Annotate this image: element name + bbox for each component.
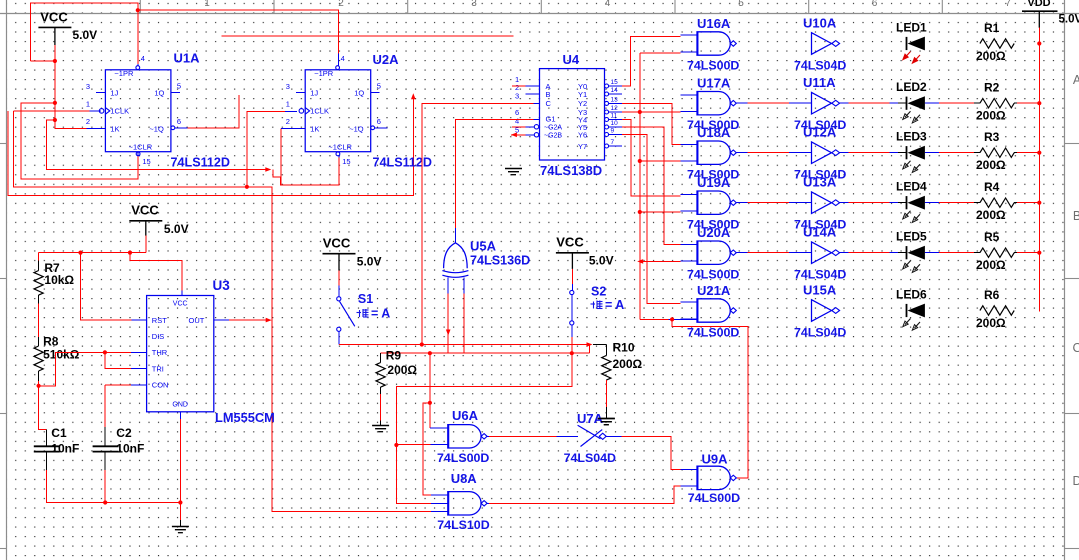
svg-text:R5: R5 — [984, 230, 1000, 244]
svg-text:12: 12 — [611, 105, 619, 112]
svg-text:6: 6 — [177, 117, 181, 126]
svg-text:74LS04D: 74LS04D — [794, 268, 846, 282]
svg-text:VCC: VCC — [131, 203, 159, 218]
power VCC3 5.0V for S1 — [323, 253, 356, 255]
wire LED to resistor — [925, 102, 939, 104]
svg-text:U3: U3 — [213, 278, 231, 293]
svg-text:74LS112D: 74LS112D — [171, 156, 231, 170]
svg-text:~1CLR: ~1CLR — [328, 142, 352, 151]
wire U5A input right — [463, 278, 465, 294]
svg-text:5.0V: 5.0V — [164, 222, 189, 236]
svg-text:74LS04D: 74LS04D — [794, 326, 846, 340]
wire inverter output to LED — [840, 152, 849, 154]
pin Y2 bubble/stub — [605, 101, 609, 105]
svg-text:~1PR: ~1PR — [314, 69, 334, 78]
node S2 bus — [570, 351, 574, 355]
svg-text:5.0V: 5.0V — [589, 254, 614, 268]
wire resistor to VDD bus — [1014, 102, 1017, 104]
wire U4 C input net from below — [422, 103, 534, 344]
svg-text:B: B — [1073, 209, 1079, 223]
svg-text:14: 14 — [611, 87, 619, 94]
switch S2 key=A closed — [571, 269, 573, 284]
svg-text:200Ω: 200Ω — [976, 208, 1006, 222]
wire RST pin — [81, 253, 132, 321]
svg-text:200Ω: 200Ω — [976, 49, 1006, 63]
svg-text:200Ω: 200Ω — [976, 109, 1006, 123]
svg-text:1Q: 1Q — [354, 88, 364, 97]
svg-text:74LS112D: 74LS112D — [373, 156, 433, 170]
wire CON to C2 — [131, 384, 147, 386]
node U6A lower branch — [394, 443, 398, 447]
node ground junction — [178, 500, 182, 504]
wire jog arrow — [265, 167, 271, 172]
svg-text:510kΩ: 510kΩ — [43, 348, 80, 362]
svg-text:10kΩ: 10kΩ — [44, 273, 74, 287]
wire Y3 chain to U16A lower — [640, 52, 681, 54]
wire U4 A input dangling stub — [512, 85, 526, 87]
node Y3 to U19A lower — [638, 210, 642, 214]
svg-text:U13A: U13A — [803, 175, 837, 190]
wire U4 G1 from U5A output — [455, 120, 533, 229]
node U6A/U8A branch — [428, 401, 432, 405]
switch S1 key=A — [338, 271, 340, 286]
LED LED5 — [906, 246, 908, 259]
wire Y3 chain to U21A lower — [640, 318, 669, 320]
node VDD bus junction — [1037, 151, 1041, 155]
ground symbol below R10 — [598, 418, 615, 420]
inverter U13A 74LS04D — [812, 192, 832, 214]
NAND gate U18A 74LS00D — [697, 141, 730, 164]
wire Y0 to U16A — [622, 37, 681, 87]
wire LED to resistor — [925, 152, 939, 154]
wire resistor to VDD bus — [1014, 252, 1017, 254]
node A1 — [53, 101, 57, 105]
wire U1A ~1PR pin 4 — [137, 10, 139, 64]
svg-text:1CLK: 1CLK — [110, 107, 129, 116]
svg-text:DIS: DIS — [152, 332, 165, 341]
decoder U4 74LS138D — [540, 69, 605, 160]
svg-text:U14A: U14A — [803, 225, 837, 240]
wire Y5 to U20A upper — [622, 127, 681, 244]
wire U3 OUT to clock net arrow — [214, 319, 229, 321]
svg-text:VCC: VCC — [556, 235, 584, 250]
wire U2A CLK blue segment — [285, 110, 297, 112]
inverter U15A 74LS04D — [812, 300, 832, 322]
svg-text:13: 13 — [611, 97, 619, 104]
svg-text:LED6: LED6 — [896, 288, 927, 302]
pin Y7 bubble/stub — [605, 144, 609, 148]
svg-text:200Ω: 200Ω — [976, 316, 1006, 330]
wire U6A output to U7A — [487, 435, 489, 437]
svg-text:U20A: U20A — [697, 225, 731, 240]
svg-text:3: 3 — [286, 82, 290, 91]
node VCC2 to RST — [78, 251, 82, 255]
svg-text:4: 4 — [341, 54, 345, 63]
svg-text:200Ω: 200Ω — [976, 258, 1006, 272]
node clock bus to U2A 1CLK — [245, 185, 249, 189]
wire dangling horizontal segment — [222, 35, 514, 37]
wire Y4 to U19A upper — [622, 120, 681, 196]
wire feedback bus lower — [8, 96, 413, 196]
NAND gate U8A 74LS10D 3-input — [448, 492, 481, 515]
wire U2A K blue segment — [281, 128, 305, 130]
svg-text:U8A: U8A — [451, 471, 478, 486]
svg-text:74LS00D: 74LS00D — [687, 59, 739, 73]
pin Y6 bubble/stub — [605, 133, 609, 137]
pin Y1 bubble/stub — [605, 92, 609, 96]
svg-text:U6A: U6A — [452, 408, 479, 423]
wire bus arrow into R10 — [587, 342, 593, 347]
svg-text:200Ω: 200Ω — [976, 158, 1006, 172]
svg-text:74LS04D: 74LS04D — [564, 451, 616, 465]
wire LED to resistor — [925, 202, 939, 204]
wire U4 ~G2B arrow stub — [511, 133, 517, 138]
svg-text:15: 15 — [611, 79, 619, 86]
svg-text:~G2A: ~G2A — [544, 125, 562, 132]
svg-text:1K: 1K — [310, 125, 319, 134]
node R8/C1/THR — [37, 384, 41, 388]
wire Y3 chain vertical — [622, 111, 681, 113]
svg-text:U10A: U10A — [803, 16, 837, 31]
svg-text:U16A: U16A — [697, 16, 731, 31]
node VDD bus junction — [1037, 41, 1041, 45]
svg-text:15: 15 — [142, 157, 150, 166]
capacitor C2 10nF — [104, 427, 106, 446]
inverter U10A 74LS04D — [812, 33, 832, 55]
wire NAND outputs to inverters rows 2-5 — [736, 102, 747, 104]
svg-text:LED4: LED4 — [896, 180, 927, 194]
svg-text:THR: THR — [152, 348, 168, 357]
svg-text:200Ω: 200Ω — [387, 363, 417, 377]
svg-text:R9: R9 — [386, 349, 402, 363]
svg-text:S1: S1 — [358, 292, 373, 306]
inverter U14A 74LS04D — [812, 242, 832, 264]
svg-text:U12A: U12A — [803, 125, 837, 140]
svg-text:B: B — [546, 90, 551, 99]
wire VDD bus vertical — [1038, 28, 1040, 312]
svg-text:10nF: 10nF — [116, 442, 144, 456]
wire S2 to key bus — [571, 337, 573, 353]
wire LED to resistor — [925, 252, 939, 254]
inverter U11A 74LS04D — [812, 92, 832, 114]
node VDD bus junction — [1037, 251, 1041, 255]
svg-text:VCC: VCC — [40, 10, 68, 25]
svg-text:TRI: TRI — [152, 364, 164, 373]
wire Y6 to U21A upper — [622, 135, 681, 304]
svg-text:7: 7 — [611, 139, 615, 146]
svg-text:3: 3 — [515, 92, 519, 101]
svg-text:~1CLR: ~1CLR — [129, 142, 153, 151]
pin Y3 bubble/stub — [605, 110, 609, 114]
capacitor C1 10nF — [39, 386, 47, 430]
power VCC2 5.0V for U3 — [129, 220, 162, 222]
svg-text:74LS00D: 74LS00D — [688, 491, 740, 505]
wire S1 bottom bus — [339, 344, 590, 346]
svg-text:A: A — [1073, 73, 1079, 87]
svg-text:5: 5 — [738, 0, 744, 9]
wire Y2 to U18A — [622, 103, 681, 144]
svg-text:LED5: LED5 — [896, 230, 927, 244]
wire arrow on U5A input — [446, 330, 451, 336]
pin ~G2B bubble — [534, 133, 538, 137]
wire to U8A input 2 — [396, 445, 431, 503]
svg-text:R2: R2 — [984, 81, 1000, 95]
inverter U12A 74LS04D — [812, 142, 832, 164]
svg-text:5: 5 — [177, 82, 181, 91]
svg-text:10nF: 10nF — [51, 442, 79, 456]
wire VCC1 down to U1A inputs — [54, 61, 56, 103]
node C-net on S1 bus — [420, 342, 424, 346]
svg-text:4: 4 — [515, 117, 519, 126]
svg-text:R8: R8 — [43, 335, 59, 349]
svg-text:4: 4 — [141, 54, 145, 63]
svg-text:C: C — [546, 99, 552, 108]
node Y3 to U18A lower — [638, 159, 642, 163]
node THR-TRI tie — [103, 350, 107, 354]
node C2 ground — [103, 500, 107, 504]
wire U2A 1K feedback — [280, 129, 282, 186]
svg-text:11: 11 — [611, 113, 618, 120]
svg-text:R6: R6 — [984, 288, 1000, 302]
svg-text:U18A: U18A — [697, 125, 731, 140]
NAND gate U17A 74LS00D — [697, 92, 730, 115]
svg-text:1: 1 — [86, 100, 90, 109]
LED LED2 — [906, 97, 908, 110]
wire inverter output to LED — [840, 202, 849, 204]
resistor R6 200R — [980, 306, 1014, 315]
svg-text:4: 4 — [605, 0, 611, 9]
svg-text:= A: = A — [605, 298, 624, 312]
svg-text:S2: S2 — [591, 285, 606, 299]
label S2 key=A — [591, 301, 603, 309]
svg-text:74LS04D: 74LS04D — [794, 59, 846, 73]
NAND gate U16A 74LS00D — [697, 32, 730, 55]
svg-text:C1: C1 — [51, 426, 67, 440]
svg-text:GND: GND — [172, 402, 188, 409]
wire VCC2 rail — [145, 236, 147, 253]
svg-text:6: 6 — [377, 117, 381, 126]
svg-text:1J: 1J — [310, 88, 318, 97]
svg-text:U5A: U5A — [470, 239, 497, 254]
svg-text:R4: R4 — [984, 180, 1000, 194]
wire VCC1 loop to U1A/U2A preset rail — [54, 45, 56, 61]
svg-text:5.0V: 5.0V — [73, 28, 98, 42]
power VCC4 5.0V for S2 — [556, 252, 589, 254]
svg-text:LM555CM: LM555CM — [215, 410, 275, 425]
wire U9A output blue segment — [735, 477, 738, 479]
svg-text:1CLK: 1CLK — [310, 107, 329, 116]
wire U1A CLR blue segment — [137, 152, 139, 156]
NAND gate U6A 74LS00D — [448, 425, 481, 448]
svg-text:74LS138D: 74LS138D — [540, 163, 602, 178]
wire bus jumper — [588, 345, 590, 354]
svg-text:15: 15 — [342, 157, 350, 166]
wire arrow into U20A lower — [637, 259, 643, 264]
svg-text:U9A: U9A — [702, 452, 729, 467]
svg-text:74LS00D: 74LS00D — [437, 451, 489, 465]
wire feedback loop to U2A ~1CLR — [47, 120, 268, 170]
svg-text:Y6: Y6 — [578, 130, 587, 139]
pin Y5 bubble/stub — [605, 125, 609, 129]
svg-text:C2: C2 — [116, 426, 132, 440]
LED LED1 — [906, 37, 908, 50]
resistor R3 200R — [980, 148, 1014, 157]
svg-text:U4: U4 — [563, 52, 580, 67]
svg-text:U11A: U11A — [803, 75, 836, 90]
svg-text:U2A: U2A — [373, 52, 400, 67]
power VCC1 5.0V — [38, 26, 71, 28]
wire U3 GND pin to ground — [179, 412, 181, 419]
node VCC1 junction — [53, 59, 57, 63]
svg-text:U1A: U1A — [174, 51, 201, 66]
NAND gate U21A 74LS00D — [697, 299, 730, 322]
resistor R7 10k — [38, 253, 40, 261]
wire line C net — [396, 353, 571, 445]
ground symbol next to U7A — [598, 418, 615, 420]
svg-text:1: 1 — [286, 100, 290, 109]
LED LED4 — [906, 196, 908, 209]
node VDD bus junction — [1037, 101, 1041, 105]
svg-text:1J: 1J — [110, 88, 118, 97]
ground symbol below U3 — [172, 526, 189, 528]
power VDD 5.0V — [1022, 10, 1058, 12]
wire branch to U8A input 1 — [423, 403, 431, 495]
svg-text:VCC: VCC — [173, 301, 188, 308]
timer U3 LM555CM — [147, 296, 214, 412]
NAND gate U9A 74LS00D — [697, 466, 730, 489]
svg-text:Y7: Y7 — [578, 142, 587, 151]
inverter U7A 74LS04D collapsed glyph — [578, 425, 603, 446]
pin Y4 bubble/stub — [605, 118, 609, 122]
svg-text:G1: G1 — [546, 115, 556, 124]
svg-text:1: 1 — [204, 0, 210, 9]
pin ~G2A bubble — [534, 125, 538, 129]
wire feedback loop to U1A ~1CLR — [21, 103, 138, 179]
svg-text:= A: = A — [371, 307, 390, 321]
svg-text:6: 6 — [872, 0, 878, 9]
svg-text:2: 2 — [86, 117, 90, 126]
svg-text:10: 10 — [611, 120, 619, 127]
wire clock bus from U1A 1CLK — [13, 110, 89, 112]
wire U7A output to U9A upper — [606, 435, 621, 437]
svg-text:5: 5 — [377, 82, 381, 91]
NAND gate U20A 74LS00D — [697, 241, 730, 264]
svg-text:CON: CON — [152, 381, 169, 390]
svg-text:74LS00D: 74LS00D — [687, 268, 739, 282]
svg-text:VCC: VCC — [323, 236, 351, 251]
resistor R1 200R — [980, 39, 1014, 48]
node A2 — [53, 118, 57, 122]
resistor R4 200R — [980, 198, 1014, 207]
wire resistor to VDD bus — [1014, 152, 1017, 154]
resistor R8 510k — [38, 337, 40, 346]
svg-text:7: 7 — [1005, 0, 1011, 9]
XOR gate U5A 74LS136D — [444, 243, 468, 268]
wire U4 ~G2A input dangling stub — [512, 126, 526, 128]
svg-text:1Q: 1Q — [154, 88, 164, 97]
svg-text:C: C — [1072, 341, 1079, 355]
wire preset rail to U2A — [136, 8, 140, 12]
svg-text:U17A: U17A — [697, 76, 731, 91]
LED LED6 — [906, 304, 908, 317]
wire U5A output up to G1 — [454, 228, 456, 243]
svg-text:200Ω: 200Ω — [613, 357, 643, 371]
svg-text:LED3: LED3 — [896, 130, 927, 144]
wire R8 bottom junction — [38, 381, 40, 386]
resistor R5 200R — [980, 248, 1014, 257]
wire inverter output to LED — [840, 102, 849, 104]
wire loop to U9A output — [672, 319, 748, 478]
flip-flop U1A 74LS112D — [105, 70, 170, 152]
svg-text:D: D — [1072, 474, 1079, 488]
svg-text:5.0V: 5.0V — [357, 255, 382, 269]
wire U8A output to U9A lower — [487, 502, 489, 504]
wire S2 lower bus y353 — [381, 352, 590, 354]
svg-text:74LS136D: 74LS136D — [470, 254, 530, 268]
svg-text:~1Q: ~1Q — [149, 125, 164, 134]
wire dangling arrow up — [411, 93, 416, 99]
wire inverter output to LED — [840, 252, 849, 254]
svg-text:R10: R10 — [613, 341, 635, 355]
resistor R10 200R — [593, 344, 607, 346]
svg-text:2: 2 — [338, 0, 344, 9]
node U21A lower junction — [670, 317, 674, 321]
svg-text:~1PR: ~1PR — [114, 69, 134, 78]
svg-text:5.0V: 5.0V — [1059, 14, 1079, 26]
wire U2A ~1PR blue segment — [337, 54, 339, 66]
svg-text:R3: R3 — [984, 130, 1000, 144]
svg-text:~G2B: ~G2B — [544, 133, 562, 140]
svg-text:OUT: OUT — [189, 316, 205, 325]
svg-text:1K: 1K — [110, 125, 119, 134]
wire U5A input left — [447, 278, 449, 294]
node VCC2 to U3 VCC — [128, 251, 132, 255]
svg-text:2: 2 — [286, 117, 290, 126]
svg-text:3: 3 — [471, 0, 477, 9]
wire U8A input 3 blue segment — [431, 511, 447, 513]
wire to U3 VCC pin — [130, 253, 182, 291]
NAND gate U19A 74LS00D — [697, 191, 730, 214]
wire U1A ~1Q to stub — [188, 95, 239, 128]
ground symbol near U4 — [505, 168, 522, 170]
svg-text:~1Q: ~1Q — [349, 125, 364, 134]
label S1 key=A — [357, 309, 369, 317]
wire THR and TRI — [39, 352, 131, 385]
sheet border ruler — [0, 13, 1079, 15]
flip-flop U2A 74LS112D — [305, 70, 371, 152]
svg-text:LED2: LED2 — [896, 80, 927, 94]
resistor R9 200R — [380, 353, 382, 362]
svg-text:U21A: U21A — [697, 283, 731, 298]
svg-text:74LS00D: 74LS00D — [687, 326, 739, 340]
svg-text:RST: RST — [152, 316, 167, 325]
node VDD bus junction — [1037, 201, 1041, 205]
svg-text:U19A: U19A — [697, 175, 731, 190]
svg-text:R1: R1 — [984, 21, 1000, 35]
wire resistor to VDD bus — [1014, 202, 1017, 204]
LED LED3 — [906, 146, 908, 159]
ground symbol below R9 — [372, 425, 389, 427]
wire to U6A lower input — [396, 444, 430, 446]
svg-text:3: 3 — [86, 82, 90, 91]
svg-text:74LS10D: 74LS10D — [437, 518, 489, 532]
svg-text:9: 9 — [611, 128, 615, 135]
wire C1 to ground bus — [46, 470, 180, 503]
wire key bus to U6A chain — [428, 351, 432, 355]
wire R7 to R8 — [38, 304, 40, 337]
resistor R2 200R — [980, 99, 1014, 108]
pin Y0 bubble/stub — [605, 84, 609, 88]
